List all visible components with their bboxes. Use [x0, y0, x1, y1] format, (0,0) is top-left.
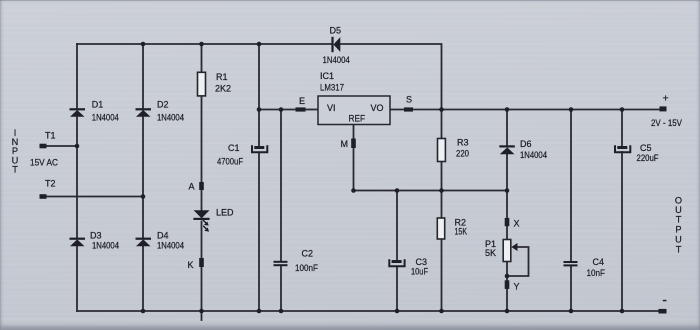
wire IC REF pin down through M to M rail — [353, 125, 355, 191]
wire C5 bottom to bottom rail — [621, 152, 623, 311]
node output rail R3 column — [439, 107, 444, 112]
node M rail P1 column — [505, 188, 510, 193]
node bottom rail D4 column — [141, 309, 146, 314]
terminal S — [404, 107, 413, 111]
capacitor C4 — [564, 261, 578, 266]
wire C4 column from output rail — [570, 110, 572, 262]
wire C3 column from M rail — [396, 191, 398, 260]
wire D4 column bottom — [142, 246, 144, 311]
node P1 wiper junction — [505, 274, 510, 279]
wire T2 lead — [47, 196, 144, 198]
wire stub below bottom rail at LED column — [201, 311, 203, 320]
wire C2 column from E rail — [280, 110, 282, 262]
wire D2 column top — [142, 44, 144, 109]
terminal + output — [660, 106, 667, 111]
wire R3 bottom to M rail — [441, 162, 443, 191]
wire C5 column from output rail — [621, 110, 623, 146]
node M rail C3 column — [395, 188, 400, 193]
resistor R1 — [198, 72, 206, 96]
wire R3 column top — [441, 110, 443, 139]
diode D3 — [70, 238, 86, 247]
wire T1 lead — [47, 145, 78, 147]
terminal Y — [505, 280, 510, 289]
terminal M — [351, 139, 356, 149]
wire IC VO pin to S terminal — [390, 109, 404, 111]
potentiometer P1 wiper arrow — [511, 243, 517, 251]
node output rail D6 column — [505, 107, 510, 112]
wire A terminal to LED — [201, 190, 203, 211]
node output rail C4 column — [569, 107, 574, 112]
node bottom rail C1 column — [257, 309, 262, 314]
wire K terminal to bottom rail — [201, 267, 203, 311]
terminal A — [199, 182, 204, 190]
wire P1 wiper loop — [507, 247, 529, 276]
node bottom rail C4 column — [569, 309, 574, 314]
capacitor C2 — [274, 261, 288, 266]
node bottom rail C5 column — [620, 309, 625, 314]
diode D6 — [499, 145, 515, 154]
wire left column bottom (D3 anode to bottom rail) — [76, 246, 78, 311]
diode D2 — [136, 108, 152, 117]
wire D6 bottom to M rail — [506, 155, 508, 191]
terminal - output — [659, 309, 667, 314]
capacitor C5 — [615, 145, 630, 152]
diode D1 — [70, 108, 86, 117]
resistor R2 — [437, 218, 444, 239]
node E rail C2 column — [279, 107, 284, 112]
LED light arrows — [203, 220, 209, 232]
terminal T2 — [40, 194, 47, 199]
node bottom rail LED column — [199, 309, 204, 314]
wire C1 column from top rail — [258, 44, 260, 146]
terminal K — [199, 258, 204, 267]
wire R2 column top — [441, 191, 443, 219]
wire LED cathode to K terminal — [201, 222, 203, 259]
resistor R3 — [438, 139, 446, 162]
node T1 junction — [75, 144, 80, 149]
wire bottom rail — [77, 310, 659, 312]
wire top rail left of D5 — [77, 43, 332, 45]
wire C2 bottom to bottom rail — [280, 266, 282, 311]
node output rail C5 column — [620, 107, 625, 112]
wire E rail from C1 column to E terminal — [259, 109, 296, 111]
wire P1 column from M rail through X — [506, 191, 508, 240]
wire C3 bottom to bottom rail — [396, 267, 398, 312]
wire E terminal to IC VI pin — [306, 109, 319, 111]
terminal T1 — [40, 144, 47, 149]
node bottom rail C2 column — [279, 309, 284, 314]
wire R2 bottom to bottom rail — [441, 239, 443, 311]
terminal X — [505, 218, 510, 226]
wire D6 column top — [506, 110, 508, 146]
capacitor C3 — [389, 259, 404, 266]
op-amp regulator IC1 LM317 box — [318, 96, 390, 125]
node bottom rail P1 column — [505, 309, 510, 314]
node top rail R1 column — [199, 42, 204, 47]
node top rail D2 column — [141, 42, 146, 47]
wire left column mid (T1 node through D1 anode to D3 cathode) — [76, 117, 78, 239]
wire output rail from S terminal to + terminal — [413, 109, 660, 111]
node M rail R2 column — [439, 188, 444, 193]
node T2 junction — [141, 194, 146, 199]
wire P1 bottom through Y to bottom rail — [506, 262, 508, 312]
wire R1 bottom to LED anode A — [201, 96, 203, 182]
capacitor C1 — [252, 145, 267, 152]
potentiometer P1 body — [503, 240, 511, 262]
wire left column top (D1 cathode to top rail) — [76, 44, 78, 109]
minus sign above - terminal — [663, 300, 667, 302]
terminal E — [296, 107, 306, 111]
diode D4 — [136, 238, 152, 247]
node E rail C1 column — [257, 107, 262, 112]
node bottom rail R2 column — [439, 309, 444, 314]
LED — [193, 210, 209, 220]
node top rail C1 column — [257, 42, 262, 47]
diode D5 — [331, 37, 340, 52]
node bottom rail C3 column — [395, 309, 400, 314]
wire D2 column mid (T2 node) — [142, 117, 144, 239]
wire R1 column from top rail — [201, 44, 203, 71]
wire C4 bottom to bottom rail — [570, 267, 572, 312]
wire M rail — [354, 190, 508, 192]
wire top rail right of D5 and drop to output rail — [340, 44, 442, 110]
node M rail REF column — [351, 188, 356, 193]
wire C1 bottom to bottom rail — [258, 153, 260, 312]
